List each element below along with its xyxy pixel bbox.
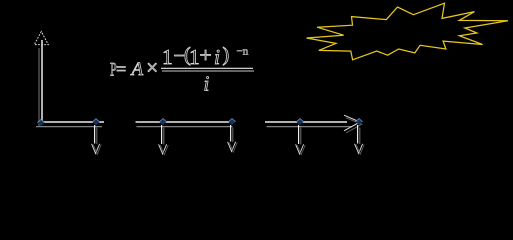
timeline open arrowhead right shadow: [346, 118, 362, 133]
y axis shadow (gray): [38, 48, 40, 127]
cash flow arrow 4 hollow head: [296, 144, 306, 154]
svg-text:=: =: [116, 59, 126, 79]
node dot 1: [92, 119, 99, 126]
cash flow arrow 4 shaft: [299, 125, 301, 145]
svg-text:i: i: [204, 72, 210, 96]
timeline segment 3 white: [265, 121, 347, 123]
timeline segment 1 shadow: [36, 126, 102, 128]
cash flow arrow 3 hollow head: [228, 142, 238, 152]
svg-text:+: +: [200, 43, 212, 67]
timeline segment 3 shadow: [267, 126, 353, 128]
timeline segment 1 white: [38, 121, 104, 123]
node dot 0 (origin): [37, 119, 44, 126]
svg-text:×: ×: [146, 56, 158, 80]
y axis hollow arrowhead: [34, 32, 48, 45]
svg-text:A: A: [130, 59, 144, 80]
formula P = A x (1-(1+i)^-n)/i: [110, 43, 249, 96]
starburst explosion shape: [307, 3, 509, 60]
svg-text:1: 1: [189, 45, 200, 69]
svg-text:−n: −n: [237, 46, 249, 58]
node dot 5: [355, 119, 362, 126]
cash flow arrow 1 shaft: [95, 125, 97, 144]
timeline segment 2 shadow: [137, 126, 233, 128]
timeline open arrowhead right white: [344, 115, 360, 131]
timeline segment 2 white: [136, 121, 235, 123]
cash flow arrow 2 hollow head: [159, 144, 169, 154]
cash flow arrow 5 hollow head: [355, 144, 365, 154]
cash flow arrow 1 hollow head: [92, 144, 102, 155]
node dot 4: [296, 119, 303, 126]
svg-text:i: i: [214, 45, 220, 69]
cash flow arrow 5 shaft: [358, 125, 360, 144]
cash flow arrow 3 shaft: [231, 125, 233, 142]
svg-text:): ): [223, 44, 230, 66]
svg-text:1: 1: [162, 45, 173, 69]
node dot 2: [159, 119, 166, 126]
node dot 3: [228, 119, 235, 126]
cash flow arrow 2 shaft: [162, 125, 164, 145]
formula fraction bar: [161, 68, 254, 71]
y axis shaft (white): [41, 40, 43, 122]
